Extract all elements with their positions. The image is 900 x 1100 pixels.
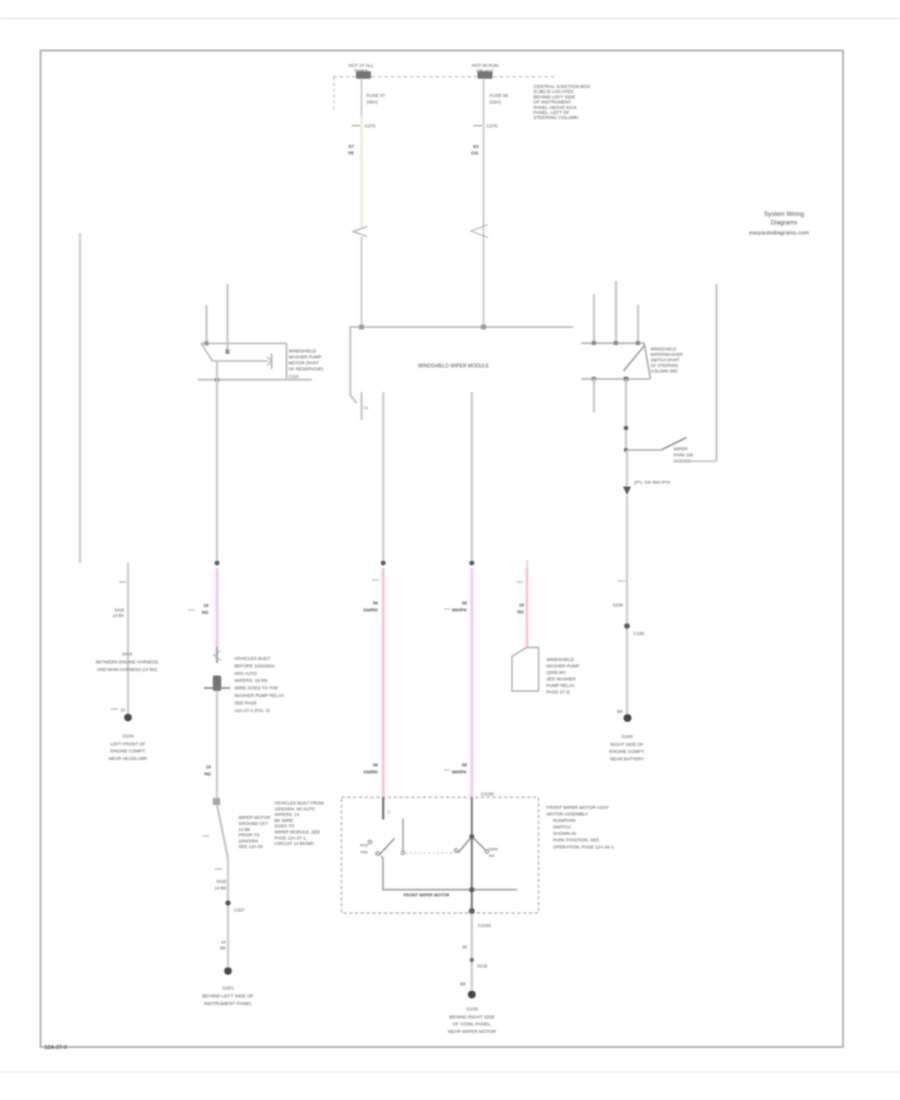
tick on far-left wire xyxy=(119,581,126,583)
svg-text:FRONT WIPER MOTOR ASSY: FRONT WIPER MOTOR ASSY xyxy=(547,805,609,810)
svg-text:S216: S216 xyxy=(477,964,488,969)
svg-text:PARK POSITION, SEE: PARK POSITION, SEE xyxy=(553,838,599,843)
svg-text:SEE WASHER: SEE WASHER xyxy=(547,677,576,682)
svg-text:NEAR WIPER MOTOR: NEAR WIPER MOTOR xyxy=(448,1029,497,1034)
inline connector on motor ground wire xyxy=(470,958,474,962)
splice S420 symbol xyxy=(204,676,230,692)
svg-text:C110: C110 xyxy=(289,374,300,379)
svg-text:RD: RD xyxy=(202,610,209,615)
svg-text:BEHIND LEFT SIDE OF: BEHIND LEFT SIDE OF xyxy=(202,994,254,1000)
svg-text:WIPER/WASHER: WIPER/WASHER xyxy=(651,352,683,357)
svg-text:WIPER MOTOR: WIPER MOTOR xyxy=(239,815,271,820)
inline connector kink xyxy=(213,798,220,805)
junction on G201 wire xyxy=(225,900,230,905)
svg-text:RD: RD xyxy=(204,772,211,777)
svg-text:19: 19 xyxy=(519,603,525,608)
svg-text:LEFT FRONT OF: LEFT FRONT OF xyxy=(110,741,145,746)
fuse F1 xyxy=(356,71,371,78)
park switch S2 base line xyxy=(626,449,662,451)
svg-text:G100: G100 xyxy=(466,1007,478,1012)
wire id BK label xyxy=(220,940,226,951)
module pin stub xyxy=(360,392,362,420)
junction motor ground at box edge xyxy=(469,908,475,914)
wiper switch S1 lower bar xyxy=(581,378,650,380)
wire 57 YE (yellow) xyxy=(360,117,363,228)
svg-text:28: 28 xyxy=(462,945,467,950)
wiper switch S1 label xyxy=(651,347,683,374)
long reference line left xyxy=(79,233,82,563)
off-page connector label xyxy=(547,657,580,695)
svg-text:System Wiring: System Wiring xyxy=(764,211,804,218)
wiper module U1 left edge xyxy=(350,327,356,403)
svg-text:C270: C270 xyxy=(487,124,498,129)
svg-text:12A-27-0: 12A-27-0 xyxy=(45,1045,67,1051)
wire 19 RD lower id label xyxy=(204,765,211,777)
svg-text:OF STEERING: OF STEERING xyxy=(651,363,679,368)
ground G100 bottom label xyxy=(448,1007,497,1035)
svg-text:BK: BK xyxy=(220,946,226,951)
wire jog diagonal xyxy=(217,805,228,858)
svg-text:GROUND CKT: GROUND CKT xyxy=(239,821,269,826)
park switch S2 arm xyxy=(662,438,687,450)
svg-text:HOT AT ALL: HOT AT ALL xyxy=(348,63,374,68)
svg-text:(P) 28 BK/PK: (P) 28 BK/PK xyxy=(634,480,672,485)
svg-text:OG: OG xyxy=(471,151,479,157)
off-page connector pentagon xyxy=(512,648,539,692)
motor internal right arm 1 xyxy=(458,837,472,854)
svg-text:MOTOR (PART: MOTOR (PART xyxy=(289,361,320,366)
svg-text:BEHIND RIGHT SIDE: BEHIND RIGHT SIDE xyxy=(449,1014,495,1019)
svg-text:WIRE GOES TO THE: WIRE GOES TO THE xyxy=(235,686,279,691)
wire 19 RD pump ground (pink) xyxy=(216,568,219,648)
svg-text:WIPERS: 19 RD: WIPERS: 19 RD xyxy=(235,678,269,683)
svg-text:14 BK: 14 BK xyxy=(215,886,227,891)
motor internal stub contact xyxy=(401,851,404,854)
svg-text:WIPERS: 14: WIPERS: 14 xyxy=(275,812,300,817)
svg-text:WASHER PUMP RELAY,: WASHER PUMP RELAY, xyxy=(235,693,285,698)
ground G201 label xyxy=(202,986,254,1008)
svg-text:63: 63 xyxy=(473,144,479,150)
svg-text:Diagrams: Diagrams xyxy=(771,220,797,227)
svg-text:RUN: RUN xyxy=(360,844,368,848)
ground G100 right xyxy=(624,714,632,722)
svg-text:C2160: C2160 xyxy=(481,792,494,797)
wiper switch S1 stub wire 1 xyxy=(593,294,595,343)
wire 19 RD washer feed (pink) xyxy=(526,568,529,648)
wire switch to park switch xyxy=(625,379,627,450)
svg-text:easyautodiagrams.com: easyautodiagrams.com xyxy=(749,231,809,237)
wire to ground G201 xyxy=(227,857,229,967)
svg-text:PAGE 27-3): PAGE 27-3) xyxy=(547,690,571,695)
svg-text:S420: S420 xyxy=(216,879,227,884)
washer pump M1 left slant edge xyxy=(201,343,213,361)
svg-text:ENGINE COMPT,: ENGINE COMPT, xyxy=(609,749,645,754)
svg-text:FUSE 47: FUSE 47 xyxy=(367,93,386,98)
svg-text:10/4/2004: 10/4/2004 xyxy=(239,838,259,843)
motor internal left arm xyxy=(379,839,395,856)
ground G201 xyxy=(224,967,232,975)
svg-text:PRIOR TO: PRIOR TO xyxy=(239,833,261,838)
motor arm junction xyxy=(469,834,474,839)
svg-text:OF COWL PANEL,: OF COWL PANEL, xyxy=(452,1022,491,1027)
svg-text:WINDSHIELD: WINDSHIELD xyxy=(547,657,575,662)
wire 19 RD washer id label xyxy=(517,603,524,615)
svg-text:BK WIRE: BK WIRE xyxy=(275,818,294,823)
inline connector on pump ground wire xyxy=(214,647,222,663)
fuse F2 xyxy=(478,71,493,78)
svg-text:PAGE 12A-27-1,: PAGE 12A-27-1, xyxy=(275,835,307,840)
svg-text:14: 14 xyxy=(221,940,226,945)
svg-text:SEE 12A-26: SEE 12A-26 xyxy=(239,844,264,849)
module pin junction right xyxy=(481,325,486,330)
connector dot on wire xyxy=(624,426,629,431)
washer feed stub (light) xyxy=(526,560,528,570)
svg-text:SHOWN IN: SHOWN IN xyxy=(553,831,576,836)
motor park label xyxy=(489,848,499,859)
wire 19 RD id label xyxy=(188,603,209,615)
svg-text:14 BK: 14 BK xyxy=(113,613,125,618)
svg-text:WIPER MODULE, SEE: WIPER MODULE, SEE xyxy=(275,830,321,835)
wiper motor label block right xyxy=(547,805,615,850)
splice junction on pump wire xyxy=(215,561,220,566)
wiper switch S1 contact junctions lower xyxy=(592,377,629,382)
ground G104 left label xyxy=(109,734,148,762)
wiper switch S1 stub wire 3 xyxy=(637,305,639,343)
fuse panel dashed left edge xyxy=(333,77,335,112)
motor linkage dotted line xyxy=(406,852,452,854)
wire switch ground lower xyxy=(626,496,628,717)
connector C270 right xyxy=(473,124,498,129)
fuse panel (CJB) dashed box top edge xyxy=(333,76,554,78)
svg-text:INSTRUMENT PANEL: INSTRUMENT PANEL xyxy=(204,1001,252,1007)
svg-text:CIRCUIT 14 BK/WH: CIRCUIT 14 BK/WH xyxy=(275,841,314,846)
svg-text:GN/RD: GN/RD xyxy=(363,770,378,775)
svg-text:(2005 MY:: (2005 MY: xyxy=(547,670,567,675)
wire 56 GN/RD (pink-red) xyxy=(382,568,385,797)
svg-text:RUN/PARK: RUN/PARK xyxy=(553,818,576,823)
svg-text:HOT IN RUN: HOT IN RUN xyxy=(472,63,499,68)
svg-text:COLUMN SW): COLUMN SW) xyxy=(651,369,678,374)
svg-text:S419: S419 xyxy=(114,608,124,613)
wire splice to connector (gray) xyxy=(216,691,218,799)
wire fuse F1 to connector (gray) xyxy=(361,79,363,118)
ground G100 bottom xyxy=(468,991,476,999)
svg-text:14: 14 xyxy=(120,708,125,713)
label HOT AT ALL TIMES xyxy=(348,63,374,73)
label central junction box xyxy=(534,84,591,120)
washer pump M1 top edge xyxy=(201,342,287,344)
svg-text:SEE PAGE: SEE PAGE xyxy=(235,700,257,705)
svg-text:VEHICLES BUILT FROM: VEHICLES BUILT FROM xyxy=(275,801,324,806)
wire switch ground upper xyxy=(626,450,628,486)
svg-text:12A-27-2 (FIG. 4): 12A-27-2 (FIG. 4) xyxy=(235,708,271,713)
washer pump pin junction 1 xyxy=(204,341,208,345)
washer pump M1 bottom edge xyxy=(198,379,312,381)
module pin junction left xyxy=(359,325,364,330)
motor speed labels xyxy=(360,844,369,855)
label HOT IN RUN xyxy=(472,63,499,73)
svg-text:G104: G104 xyxy=(122,734,134,739)
svg-text:WIPER: WIPER xyxy=(674,447,688,452)
wiper module U1 top bus line xyxy=(349,326,573,328)
svg-text:OF RESERVOIR): OF RESERVOIR) xyxy=(289,367,324,372)
svg-text:C150: C150 xyxy=(634,631,645,636)
fuse F2 value label xyxy=(490,93,509,104)
svg-text:WINDSHIELD: WINDSHIELD xyxy=(651,347,677,352)
ground G100 right label xyxy=(609,734,645,762)
svg-text:57: 57 xyxy=(349,144,355,150)
svg-text:G100: G100 xyxy=(621,734,633,739)
svg-text:G201: G201 xyxy=(222,986,234,992)
wire park switch feedback horizontal xyxy=(675,460,717,462)
splice junction right motor wire xyxy=(469,561,474,566)
connector C270 left xyxy=(352,124,376,129)
wiper switch S1 right edge xyxy=(644,344,650,380)
wire motor to ground (below box) xyxy=(471,913,473,990)
svg-text:FUSE 56: FUSE 56 xyxy=(490,93,509,98)
washer pump M1 stub wire 2 xyxy=(226,284,228,353)
motor internal right contacts xyxy=(454,849,488,853)
svg-text:BETWEEN ENGINE HARNESS: BETWEEN ENGINE HARNESS xyxy=(96,659,158,664)
svg-text:56: 56 xyxy=(373,763,379,768)
svg-text:MOTOR ASSEMBLY: MOTOR ASSEMBLY xyxy=(547,812,589,817)
watermark system wiring diagrams xyxy=(749,211,809,237)
wire 63 OG id label xyxy=(471,144,479,157)
wiper switch S1 upper bar xyxy=(581,342,645,344)
wire 58 id label lower xyxy=(444,763,468,775)
washer pump M1 brush chevron xyxy=(267,354,272,370)
svg-text:YE: YE xyxy=(348,151,355,157)
svg-text:WINDSHIELD: WINDSHIELD xyxy=(289,349,317,354)
washer pump M1 stub wire 1 xyxy=(205,305,207,343)
svg-text:NEAR HEADLAMP: NEAR HEADLAMP xyxy=(109,756,148,761)
svg-text:AND MAIN HARNESS (14 BK): AND MAIN HARNESS (14 BK) xyxy=(97,667,158,672)
inline connector on right feed wire xyxy=(471,225,488,238)
svg-text:VEHICLES BUILT: VEHICLES BUILT xyxy=(235,656,271,661)
connector arrow on ground wire xyxy=(623,487,631,496)
svg-text:GOES TO: GOES TO xyxy=(275,824,295,829)
svg-text:58: 58 xyxy=(462,763,468,768)
washer pump M1 right edge xyxy=(286,343,288,379)
note block washer relay xyxy=(235,656,285,713)
washer pump ground pin junction xyxy=(215,377,220,382)
svg-text:19: 19 xyxy=(206,765,212,770)
svg-text:C327: C327 xyxy=(234,908,245,913)
park switch S2 pivot xyxy=(624,448,628,452)
svg-text:OPERATION, PAGE 12A-26-1: OPERATION, PAGE 12A-26-1 xyxy=(553,845,614,850)
svg-text:WH/PK: WH/PK xyxy=(452,770,468,775)
wire 58 WH/PK (magenta) xyxy=(470,568,473,797)
svg-text:S419: S419 xyxy=(122,652,133,657)
SCAN-ARTIFACTS xyxy=(0,18,900,20)
motor common junction xyxy=(469,887,474,892)
svg-text:RD: RD xyxy=(517,610,524,615)
svg-text:PARK SW: PARK SW xyxy=(674,453,694,458)
motor internal right arm 2 xyxy=(472,837,486,851)
svg-text:C1: C1 xyxy=(364,406,369,410)
svg-text:GN/RD: GN/RD xyxy=(363,608,378,613)
wire fuse F2 to module (gray) xyxy=(483,79,485,328)
wiper switch S1 contact junctions upper xyxy=(592,341,640,345)
splice junction left motor wire xyxy=(381,561,386,566)
motor internal left arm contact xyxy=(376,852,379,855)
tick on washer feed xyxy=(517,581,524,583)
park switch S2 label xyxy=(674,447,694,464)
svg-text:WH/PK: WH/PK xyxy=(452,608,468,613)
svg-text:SWITCH (PART: SWITCH (PART xyxy=(651,358,681,363)
wire far-left ground branch xyxy=(127,562,129,716)
ground G104 left xyxy=(124,714,132,722)
tick near jog xyxy=(202,835,209,837)
wire park switch feedback vertical xyxy=(715,284,717,461)
wiper switch S1 stub wire 2 xyxy=(615,281,617,343)
svg-text:ENGINE COMPT,: ENGINE COMPT, xyxy=(110,749,146,754)
svg-text:C270: C270 xyxy=(365,124,376,129)
wire pump to splice (gray) xyxy=(216,361,218,563)
splice note block far-left xyxy=(96,652,158,673)
note block wiper motor ground TB1 xyxy=(239,815,271,849)
wire module pin to splice (left, gray) xyxy=(382,392,384,563)
svg-text:58: 58 xyxy=(462,601,468,606)
wire 56 id label lower xyxy=(363,763,378,775)
inline connector on left feed wire xyxy=(353,227,367,237)
fuse F1 value label xyxy=(367,93,386,104)
svg-text:C2160: C2160 xyxy=(478,923,491,928)
motor internal common path xyxy=(381,856,517,890)
splice S230 junction xyxy=(624,623,630,629)
svg-text:WINDSHIELD WIPER MODULE: WINDSHIELD WIPER MODULE xyxy=(418,364,489,370)
svg-text:10/4/2004, W/ AUTO: 10/4/2004, W/ AUTO xyxy=(275,806,316,811)
svg-text:BEFORE 10/4/2004,: BEFORE 10/4/2004, xyxy=(235,663,276,668)
svg-text:FRONT WIPER MOTOR: FRONT WIPER MOTOR xyxy=(404,893,451,898)
washer pump M1 armature line xyxy=(213,360,269,362)
svg-text:PUMP RELAY,: PUMP RELAY, xyxy=(547,683,576,688)
note block wiper module TB2 xyxy=(275,801,324,847)
wire module pin to splice (right, gray) xyxy=(471,392,473,563)
svg-text:BK: BK xyxy=(460,982,466,987)
svg-text:W/O AUTO: W/O AUTO xyxy=(235,671,258,676)
svg-text:STEERING COLUMN: STEERING COLUMN xyxy=(534,115,579,120)
wire connector to module (gray) xyxy=(361,237,363,328)
splice S420 label xyxy=(215,879,228,891)
svg-text:2: 2 xyxy=(388,810,390,814)
svg-text:(15A): (15A) xyxy=(490,99,502,104)
motor internal stub from pin xyxy=(402,819,404,852)
washer pump M1 label xyxy=(289,349,324,372)
wiper switch stub below xyxy=(593,379,595,413)
svg-text:S230: S230 xyxy=(613,603,624,608)
svg-text:SW: SW xyxy=(489,854,495,858)
svg-text:14 BK: 14 BK xyxy=(239,827,251,832)
motor internal run contact circle xyxy=(368,840,371,843)
svg-text:56: 56 xyxy=(373,601,379,606)
svg-text:RIGHT SIDE OF: RIGHT SIDE OF xyxy=(610,742,643,747)
wire 57 YE id label xyxy=(348,144,355,157)
washer pump pin junction 2 xyxy=(225,349,229,354)
tick above ground far-left xyxy=(111,708,126,713)
wire 58 id label upper xyxy=(444,601,468,613)
motor internal wire (dark) through box xyxy=(471,797,473,913)
svg-text:WASHER PUMP: WASHER PUMP xyxy=(289,355,322,360)
svg-text:SWITCH: SWITCH xyxy=(553,825,571,830)
svg-text:(30A): (30A) xyxy=(367,99,379,104)
svg-text:NEAR BATTERY: NEAR BATTERY xyxy=(610,757,644,762)
svg-text:PARK: PARK xyxy=(489,848,499,852)
tick on ground wire xyxy=(618,580,626,582)
svg-text:19: 19 xyxy=(203,603,209,608)
motor pin stub pink side (dark) xyxy=(382,797,384,820)
svg-text:PRK: PRK xyxy=(360,851,368,855)
wire 56 id label upper xyxy=(363,601,378,613)
svg-text:BK: BK xyxy=(617,709,623,714)
wiper switch S1 wiper arm xyxy=(624,346,645,372)
tick on wire 56 xyxy=(372,579,379,581)
splice S419 label xyxy=(113,608,125,619)
tick on G201 wire xyxy=(215,868,222,870)
svg-text:WASHER PUMP: WASHER PUMP xyxy=(547,664,580,669)
wiper motor M2 dashed housing xyxy=(342,797,539,913)
